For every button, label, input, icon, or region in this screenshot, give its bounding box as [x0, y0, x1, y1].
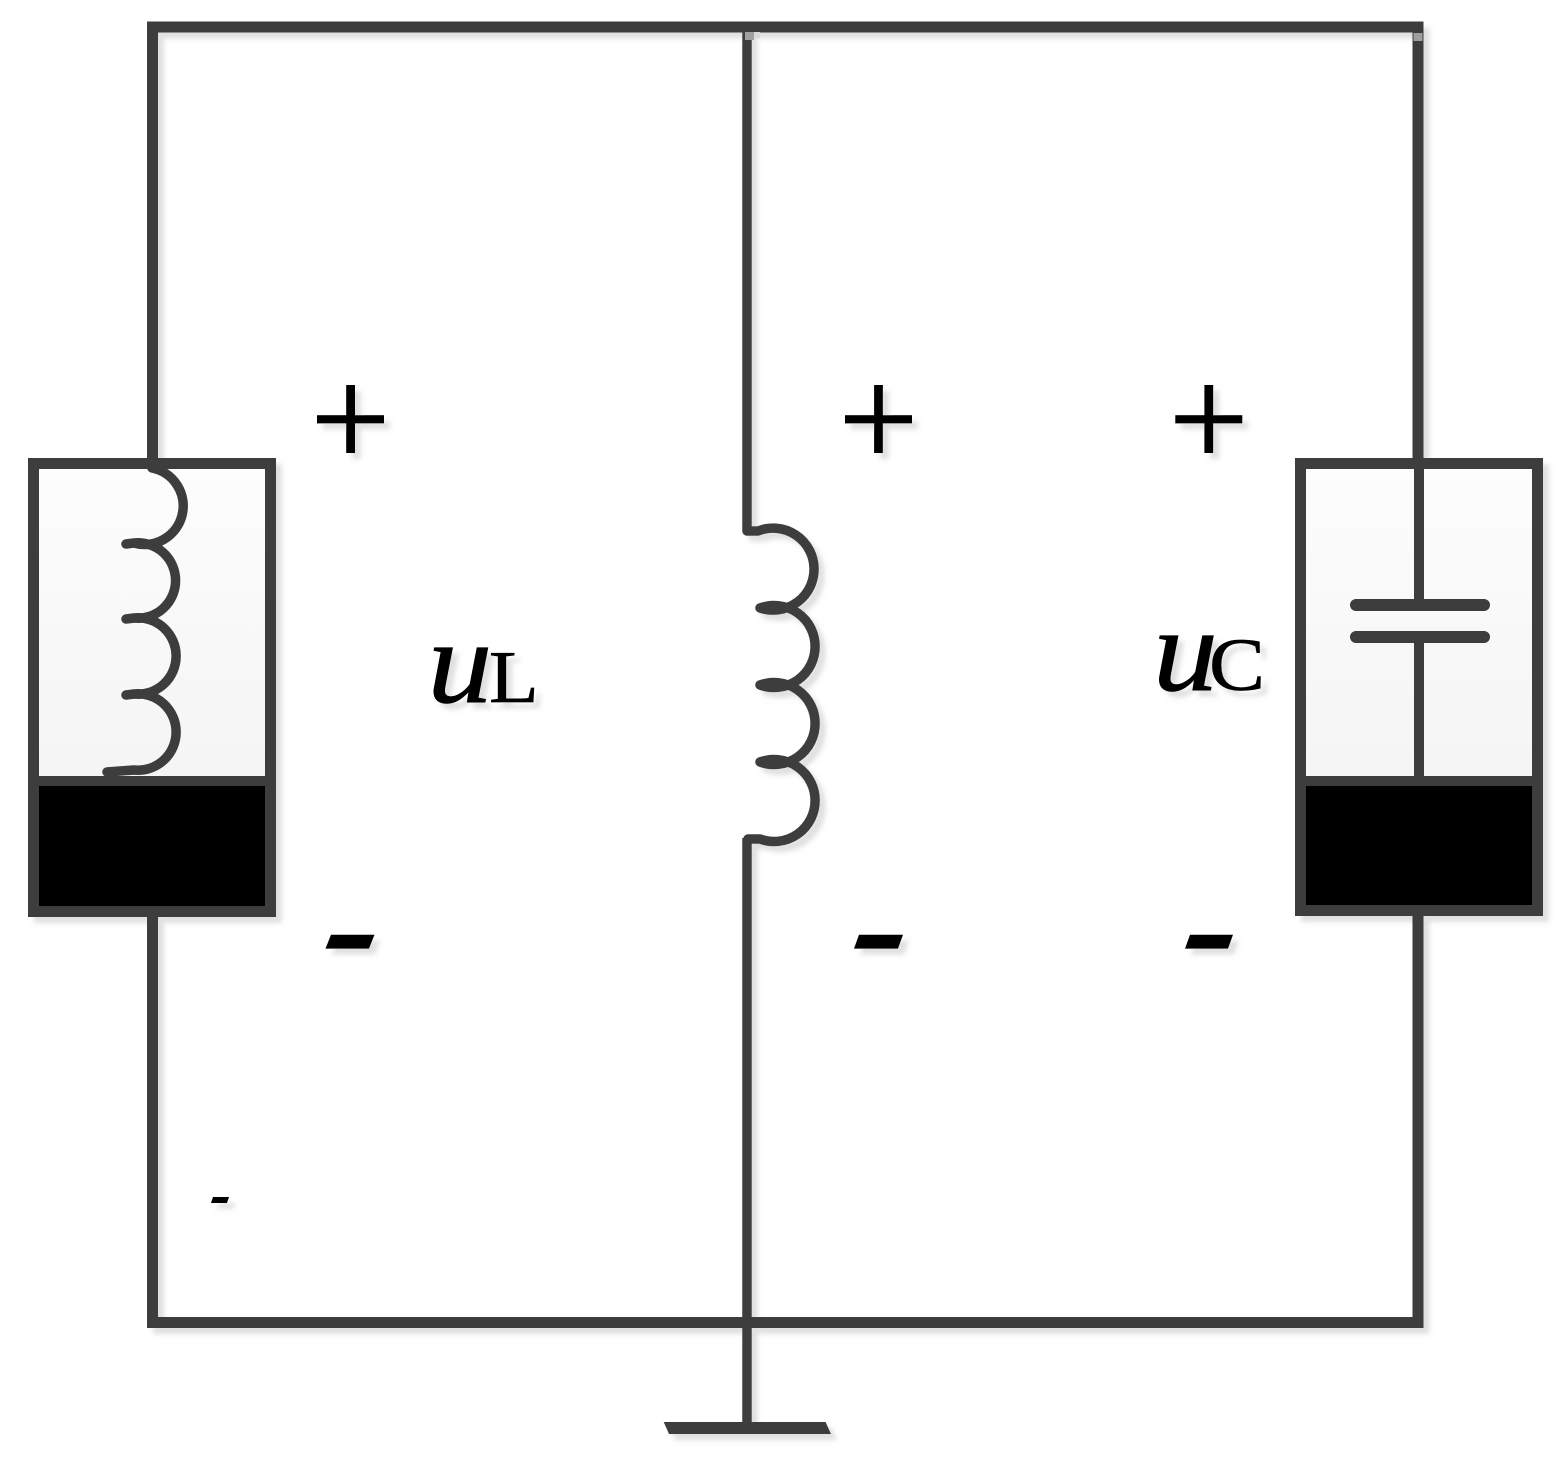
U1 separator line — [39, 776, 265, 786]
capacitor C top lead — [1414, 464, 1424, 600]
U1 black terminal block — [39, 786, 265, 906]
minus sign of uC — [1185, 935, 1233, 949]
minus sign of center inductor — [854, 935, 903, 949]
wire joint artifact at top right corner — [1414, 33, 1423, 41]
wire center branch top segment — [742, 22, 752, 531]
minus sign of uL — [326, 935, 375, 949]
small dash mark bottom left — [211, 1197, 229, 1203]
inductor L (center coil) — [747, 528, 815, 841]
capacitor C bottom plate — [1356, 631, 1484, 643]
plus sign of uL — [317, 385, 384, 453]
wire joint artifact at top center junction — [745, 32, 754, 40]
capacitor component box U2 (right) — [1301, 464, 1538, 911]
plus sign of center inductor — [845, 385, 912, 453]
capacitor C bottom lead — [1414, 643, 1424, 781]
svg-text:u: u — [428, 596, 493, 727]
inductor coil inside U1 — [107, 468, 183, 772]
svg-text:L: L — [489, 636, 539, 718]
ground — [664, 1422, 831, 1434]
capacitor C top plate — [1356, 599, 1484, 611]
U2 separator line — [1306, 776, 1532, 786]
wire center branch bottom segment to ground — [742, 838, 752, 1422]
inductor component box U1 (left) — [34, 464, 271, 912]
plus sign of uC — [1175, 385, 1242, 453]
wire outer loop (left rail, top rail, right rail, bottom rail) — [153, 27, 1419, 1323]
svg-text:C: C — [1209, 624, 1265, 707]
U2 black terminal block — [1306, 786, 1532, 905]
